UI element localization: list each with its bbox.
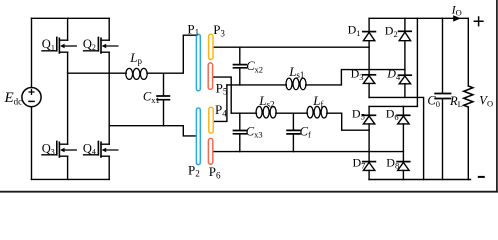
diode D6 <box>397 115 410 124</box>
resistor R_L branch <box>467 18 469 86</box>
diode D4 <box>399 75 412 84</box>
transformer winding P5 <box>208 63 212 89</box>
border right line <box>496 0 498 192</box>
svg-text:Cx3: Cx3 <box>246 124 263 139</box>
transformer winding P3 <box>209 34 213 59</box>
diode D8 <box>397 162 410 171</box>
wire bottom rail primary bridge <box>32 178 110 180</box>
wire upper bridge minus rail <box>369 97 424 179</box>
wire top rail primary bridge <box>32 17 110 19</box>
svg-text:Q2: Q2 <box>83 37 96 52</box>
svg-text:D3: D3 <box>351 67 364 82</box>
inductor Lp <box>126 68 147 79</box>
svg-text:D6: D6 <box>386 107 399 122</box>
wire P3 to upper bridge (w1) <box>213 46 369 48</box>
svg-text:P4: P4 <box>215 102 227 118</box>
transistor Q3 <box>42 141 76 157</box>
inductor Lf <box>307 106 327 118</box>
wire node B to P2 <box>109 126 196 136</box>
transistor Q4 <box>84 141 118 157</box>
svg-text:D4: D4 <box>386 67 401 82</box>
transformer winding P4 <box>209 107 213 133</box>
capacitor Cx1 <box>163 73 165 95</box>
dc source E_dc <box>22 88 41 107</box>
inductor Ls1 <box>286 78 306 90</box>
svg-text:Ls2: Ls2 <box>258 93 274 109</box>
wire leg B segments <box>108 18 110 179</box>
svg-text:Q1: Q1 <box>42 37 55 52</box>
wire lower bridge leg2 <box>402 106 404 179</box>
svg-text:P3: P3 <box>213 22 225 38</box>
svg-text:Cx1: Cx1 <box>143 90 160 105</box>
svg-text:Lf: Lf <box>312 93 323 109</box>
svg-text:Lp: Lp <box>129 50 142 66</box>
svg-text:D5: D5 <box>352 106 365 121</box>
wire upper bridge leg2 <box>404 18 406 97</box>
wire w3 to lower bridge leg1 <box>327 113 369 130</box>
inductor Ls2 <box>256 106 276 118</box>
wire node A to Lp <box>68 72 127 74</box>
wire lower bridge top rail <box>369 105 417 107</box>
svg-text:VO: VO <box>479 93 493 108</box>
capacitor Cx3 <box>239 113 241 130</box>
wire leg A segments <box>67 18 69 179</box>
border bottom line <box>0 191 498 193</box>
capacitor Cx2 <box>239 47 241 64</box>
wire w3 mid <box>276 112 308 114</box>
transformer winding P1 <box>196 34 200 91</box>
svg-text:P1: P1 <box>187 21 199 37</box>
svg-text:P6: P6 <box>209 164 221 180</box>
wire plus tie riser <box>416 18 418 106</box>
transformer winding P6 <box>208 138 212 164</box>
svg-text:Ls1: Ls1 <box>288 64 304 80</box>
svg-text:D8: D8 <box>386 155 399 170</box>
svg-text:D7: D7 <box>353 155 366 170</box>
wire P5 lead down to w3 <box>212 77 231 113</box>
wire P4 lead riser to w2 <box>214 85 227 122</box>
wire w3 left <box>231 112 256 114</box>
minus terminal <box>479 176 484 178</box>
svg-text:D2: D2 <box>385 24 398 39</box>
wire P6 to lower bridge leg2 (w4) <box>212 151 403 153</box>
svg-text:Edc: Edc <box>4 90 23 107</box>
svg-text:Q4: Q4 <box>83 141 96 156</box>
output current arrow IO <box>453 15 461 21</box>
capacitor Cf <box>292 113 294 130</box>
diode D7 <box>363 162 376 171</box>
wire lower bridge leg1 <box>368 106 370 179</box>
svg-text:IO: IO <box>451 2 462 17</box>
wire w2 to upper bridge leg2 <box>306 70 405 85</box>
wire Lp to P1 riser <box>147 35 197 73</box>
svg-text:Cf: Cf <box>300 124 311 139</box>
plus terminal <box>474 17 483 26</box>
transformer winding P2 <box>196 108 200 165</box>
wire left rail upper <box>31 18 33 87</box>
diode D3 <box>363 75 376 84</box>
svg-text:D1: D1 <box>348 23 361 38</box>
transistor Q1 <box>42 37 76 53</box>
diode D1 <box>363 32 376 41</box>
wire output bottom rail <box>369 179 470 181</box>
svg-text:Cx2: Cx2 <box>246 59 263 74</box>
diode D5 <box>363 115 376 124</box>
wire w2 left <box>227 84 286 86</box>
svg-text:Q3: Q3 <box>42 141 55 156</box>
wire upper bridge leg1 <box>368 18 370 97</box>
svg-text:RL: RL <box>449 94 463 109</box>
diode D2 <box>399 31 412 40</box>
svg-text:P5: P5 <box>216 80 228 96</box>
transistor Q2 <box>84 37 118 53</box>
wire output top rail <box>369 17 468 19</box>
svg-text:C0: C0 <box>427 94 440 109</box>
capacitor C0 branch <box>442 18 444 93</box>
wire left rail lower <box>31 107 33 180</box>
